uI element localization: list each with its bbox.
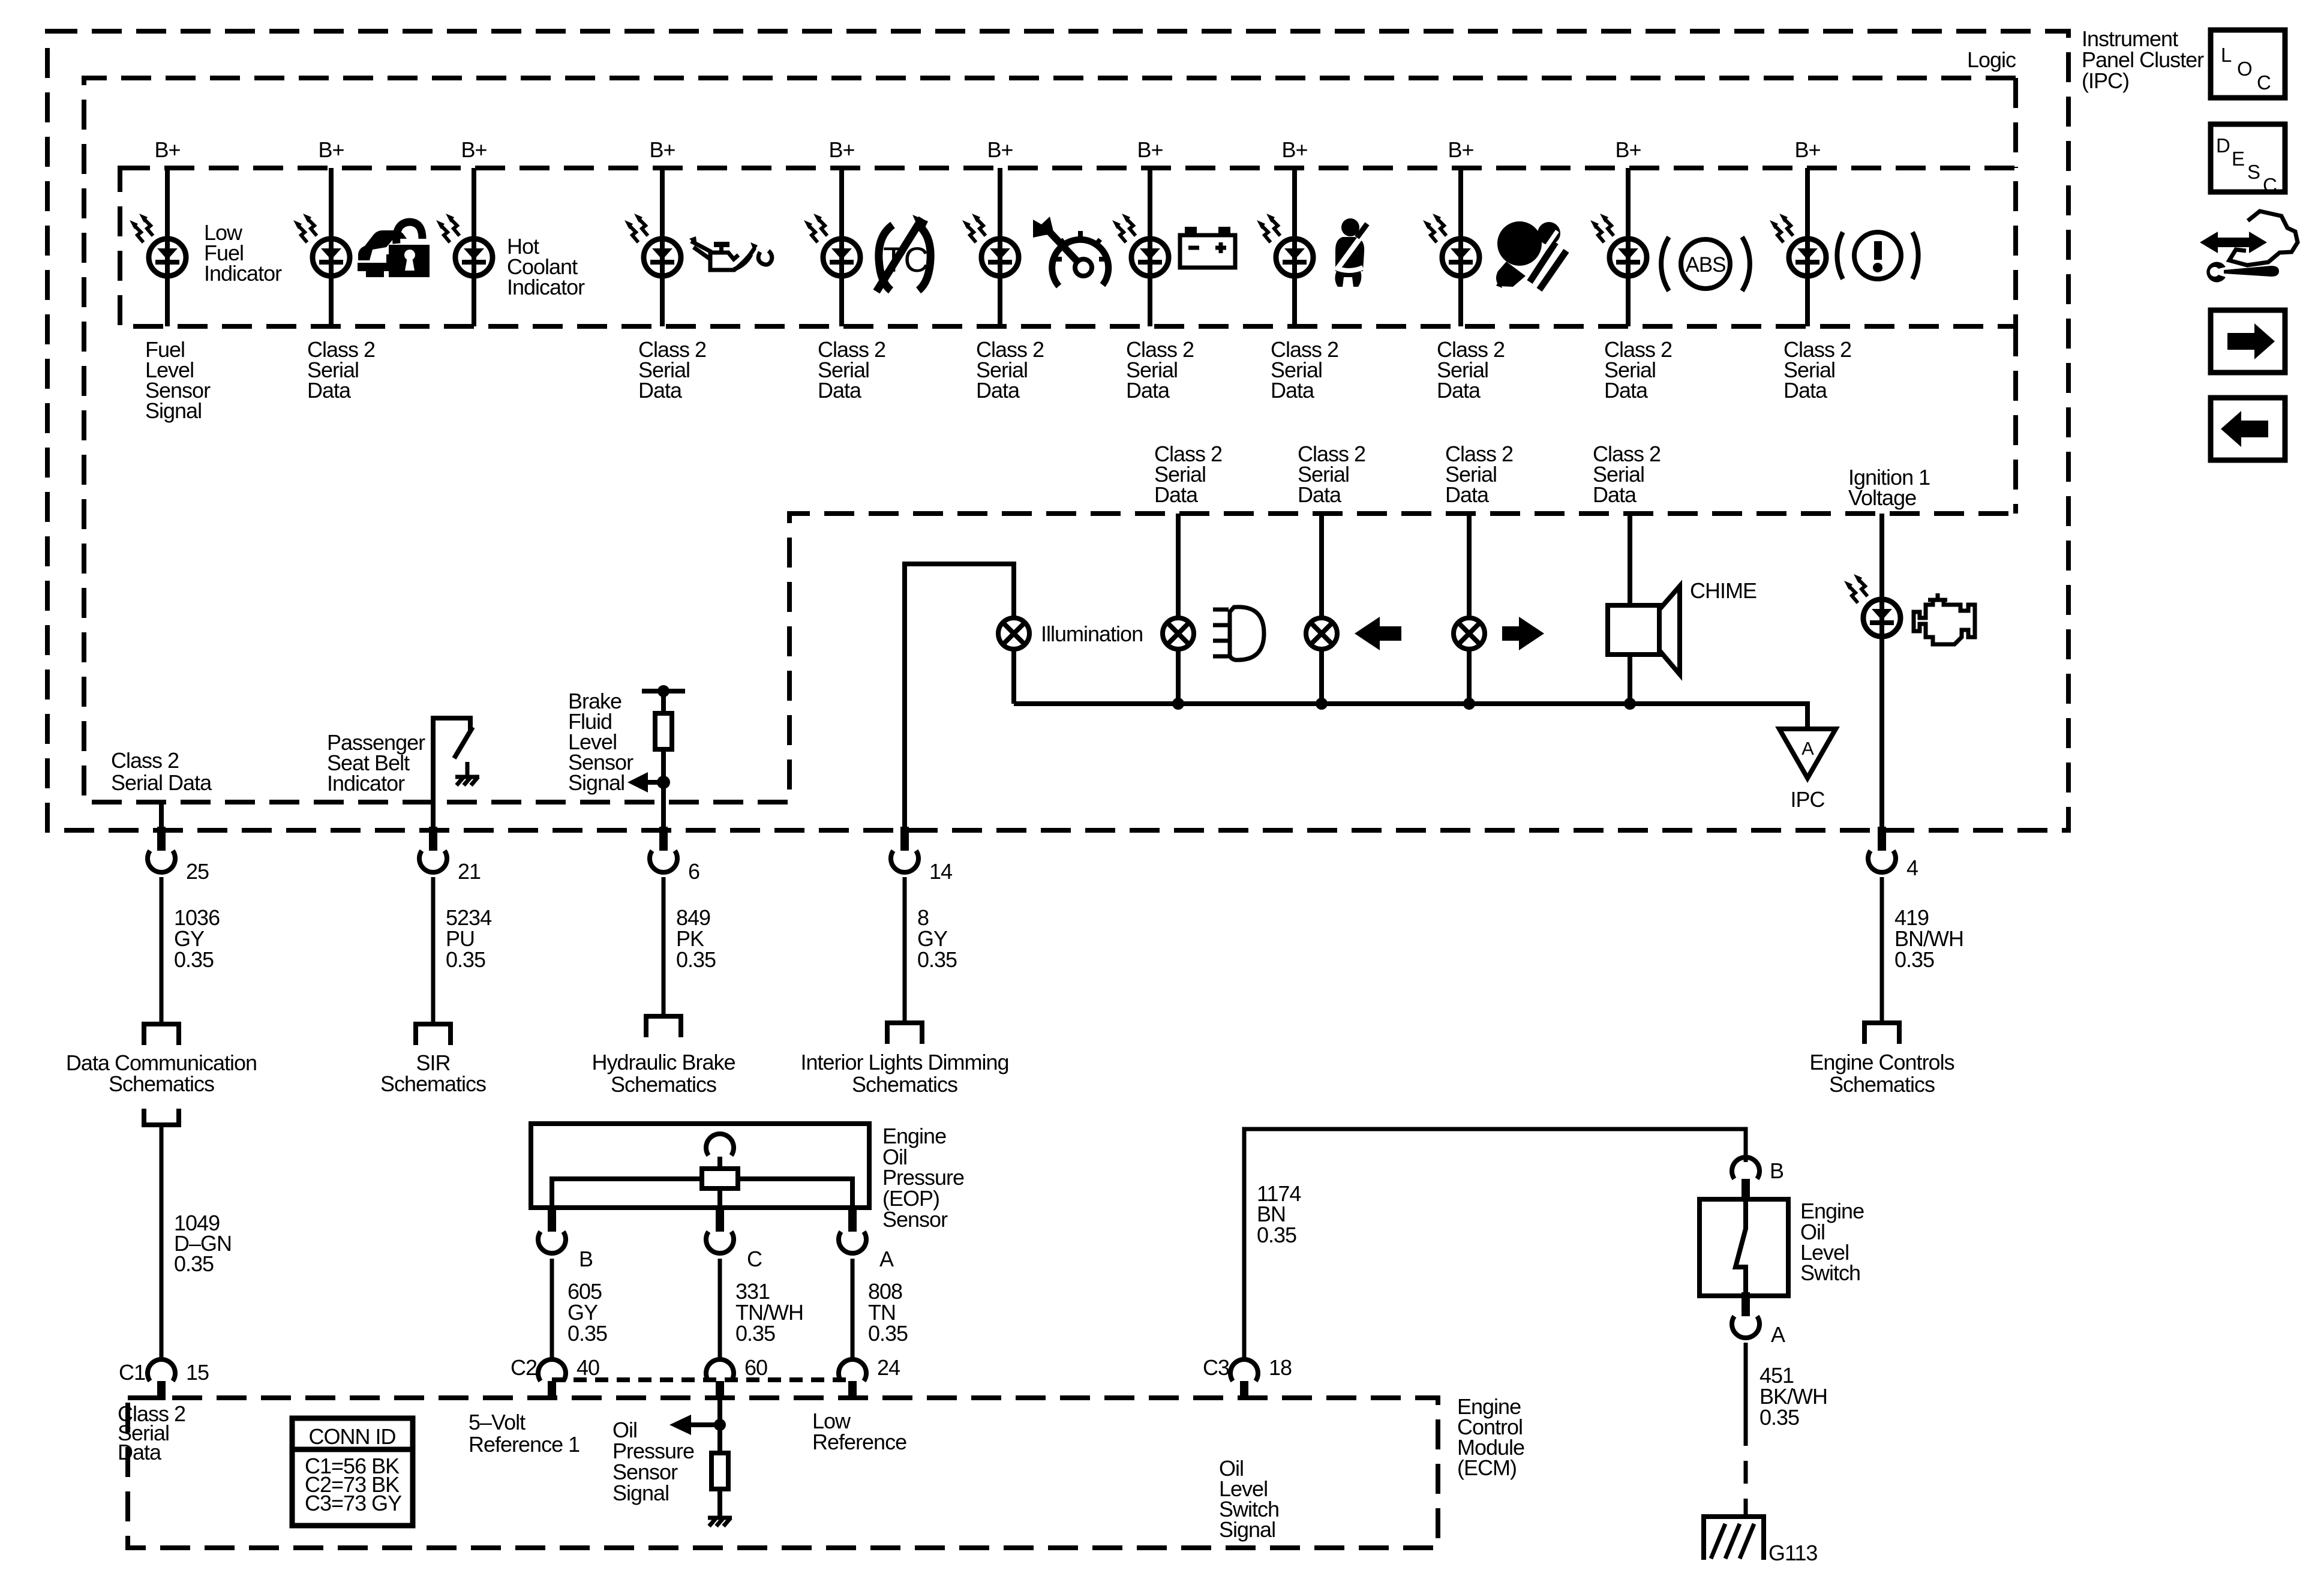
svg-text:Logic: Logic xyxy=(1967,47,2016,72)
svg-text:B: B xyxy=(1770,1158,1783,1183)
svg-text:C1: C1 xyxy=(119,1360,145,1385)
svg-text:B+: B+ xyxy=(1137,137,1163,162)
svg-text:Signal: Signal xyxy=(145,398,202,423)
svg-text:0.35: 0.35 xyxy=(676,947,716,972)
svg-text:15: 15 xyxy=(186,1360,209,1385)
svg-text:C: C xyxy=(747,1247,762,1271)
svg-text:Signal: Signal xyxy=(1219,1517,1275,1542)
svg-text:B+: B+ xyxy=(1281,137,1307,162)
svg-text:B+: B+ xyxy=(1448,137,1473,162)
svg-text:A: A xyxy=(1801,738,1814,759)
svg-text:Schematics: Schematics xyxy=(380,1071,486,1096)
svg-text:0.35: 0.35 xyxy=(1257,1223,1296,1247)
svg-text:C: C xyxy=(2263,174,2277,196)
svg-text:B: B xyxy=(579,1247,593,1271)
svg-text:S: S xyxy=(2247,161,2260,183)
svg-text:Indicator: Indicator xyxy=(507,275,585,299)
svg-text:Indicator: Indicator xyxy=(327,771,405,795)
svg-text:Class 2: Class 2 xyxy=(111,748,179,773)
svg-text:G113: G113 xyxy=(1768,1541,1817,1565)
svg-text:5–Volt: 5–Volt xyxy=(469,1410,526,1434)
svg-text:0.35: 0.35 xyxy=(1894,947,1934,972)
svg-text:B+: B+ xyxy=(649,137,675,162)
svg-text:0.35: 0.35 xyxy=(446,947,485,972)
svg-text:21: 21 xyxy=(458,859,481,884)
svg-text:Data: Data xyxy=(118,1440,162,1464)
svg-text:O: O xyxy=(2237,58,2252,80)
svg-text:B+: B+ xyxy=(1615,137,1641,162)
svg-text:B+: B+ xyxy=(318,137,344,162)
svg-text:Sensor: Sensor xyxy=(882,1207,948,1232)
svg-text:25: 25 xyxy=(186,859,209,884)
svg-text:Hydraulic Brake: Hydraulic Brake xyxy=(591,1050,735,1074)
svg-text:A: A xyxy=(1771,1322,1785,1347)
svg-text:Voltage: Voltage xyxy=(1848,485,1916,510)
svg-text:CHIME: CHIME xyxy=(1690,578,1756,603)
svg-text:Signal: Signal xyxy=(568,770,624,795)
svg-text:D: D xyxy=(2216,134,2230,157)
svg-text:0.35: 0.35 xyxy=(174,1251,214,1276)
svg-text:0.35: 0.35 xyxy=(174,947,214,972)
svg-text:ABS: ABS xyxy=(1685,253,1725,277)
svg-text:24: 24 xyxy=(877,1355,900,1380)
svg-text:Engine Controls: Engine Controls xyxy=(1809,1050,1954,1074)
svg-text:0.35: 0.35 xyxy=(735,1321,775,1346)
svg-text:14: 14 xyxy=(929,859,952,884)
svg-text:Schematics: Schematics xyxy=(1829,1072,1935,1097)
svg-text:(IPC): (IPC) xyxy=(2082,68,2129,93)
svg-text:18: 18 xyxy=(1269,1355,1292,1380)
svg-text:Switch: Switch xyxy=(1800,1260,1860,1285)
svg-text:IPC: IPC xyxy=(1790,787,1824,812)
svg-text:Reference: Reference xyxy=(812,1430,906,1454)
svg-text:Indicator: Indicator xyxy=(204,261,282,286)
svg-text:B+: B+ xyxy=(828,137,854,162)
svg-text:0.35: 0.35 xyxy=(868,1321,908,1346)
svg-text:6: 6 xyxy=(688,859,699,884)
svg-text:40: 40 xyxy=(577,1355,599,1380)
svg-text:E: E xyxy=(2232,148,2244,170)
svg-text:Signal: Signal xyxy=(612,1481,669,1505)
svg-text:0.35: 0.35 xyxy=(568,1321,607,1346)
svg-text:60: 60 xyxy=(744,1355,767,1380)
svg-text:0.35: 0.35 xyxy=(1759,1405,1799,1430)
svg-text:CONN ID: CONN ID xyxy=(309,1424,396,1449)
svg-text:Serial Data: Serial Data xyxy=(111,770,212,795)
svg-text:B+: B+ xyxy=(987,137,1013,162)
svg-text:Schematics: Schematics xyxy=(611,1072,716,1097)
svg-text:Reference 1: Reference 1 xyxy=(469,1432,580,1457)
svg-text:Illumination: Illumination xyxy=(1041,622,1143,646)
svg-text:0.35: 0.35 xyxy=(917,947,957,972)
svg-text:Schematics: Schematics xyxy=(852,1072,957,1097)
svg-text:B+: B+ xyxy=(154,137,180,162)
svg-text:C3=73 GY: C3=73 GY xyxy=(305,1491,402,1515)
svg-text:B+: B+ xyxy=(1794,137,1820,162)
svg-text:(ECM): (ECM) xyxy=(1457,1455,1517,1480)
svg-text:A: A xyxy=(879,1247,894,1271)
svg-text:B+: B+ xyxy=(461,137,487,162)
svg-text:Schematics: Schematics xyxy=(109,1071,214,1096)
svg-text:Interior Lights Dimming: Interior Lights Dimming xyxy=(800,1050,1008,1074)
svg-text:C3: C3 xyxy=(1203,1355,1229,1380)
svg-text:C2: C2 xyxy=(511,1355,537,1380)
svg-text:C: C xyxy=(2257,71,2271,94)
svg-text:4: 4 xyxy=(1906,855,1918,880)
svg-text:L: L xyxy=(2221,44,2232,66)
